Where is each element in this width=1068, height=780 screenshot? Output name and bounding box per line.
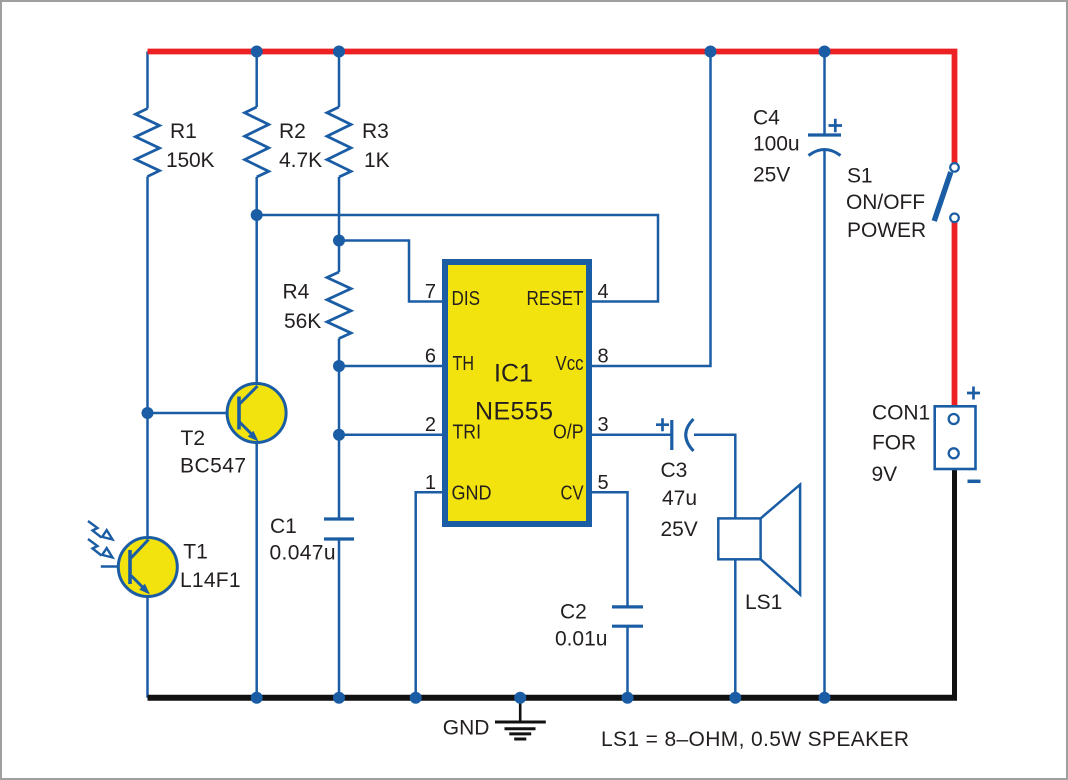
svg-text:C4: C4 [753,107,780,130]
svg-text:POWER: POWER [847,219,926,242]
svg-text:L14F1: L14F1 [180,569,241,592]
svg-text:DIS: DIS [452,288,481,310]
svg-text:4: 4 [598,281,609,303]
svg-text:47u: 47u [662,487,697,510]
svg-text:3: 3 [598,414,609,436]
svg-text:IC1: IC1 [494,360,533,388]
svg-text:CV: CV [561,483,585,505]
svg-text:R2: R2 [279,120,306,143]
svg-text:GND: GND [443,717,490,740]
svg-text:56K: 56K [284,310,321,333]
svg-text:C2: C2 [560,601,587,624]
svg-text:150K: 150K [166,149,215,172]
svg-text:5: 5 [598,472,609,494]
svg-text:C3: C3 [661,459,688,482]
svg-text:R4: R4 [283,281,310,304]
svg-text:4.7K: 4.7K [279,149,322,172]
svg-text:0.047u: 0.047u [270,542,336,565]
svg-text:1: 1 [425,472,436,494]
svg-text:RESET: RESET [527,288,584,310]
svg-text:T2: T2 [181,427,206,450]
svg-text:25V: 25V [753,164,790,187]
svg-text:FOR: FOR [872,432,916,455]
svg-text:2: 2 [425,414,436,436]
svg-text:100u: 100u [753,133,800,156]
svg-text:LS1: LS1 [745,591,782,614]
svg-text:T1: T1 [183,541,208,564]
svg-text:25V: 25V [661,518,698,541]
svg-text:R3: R3 [362,120,389,143]
svg-text:6: 6 [425,346,436,368]
svg-text:CON1: CON1 [872,402,930,425]
svg-text:TRI: TRI [453,422,482,444]
svg-text:R1: R1 [170,120,197,143]
svg-text:S1: S1 [847,164,873,187]
svg-text:NE555: NE555 [475,398,553,426]
svg-text:TH: TH [453,353,475,375]
svg-text:1K: 1K [364,149,390,172]
svg-text:ON/OFF: ON/OFF [846,191,925,214]
svg-text:LS1 = 8–OHM, 0.5W SPEAKER: LS1 = 8–OHM, 0.5W SPEAKER [601,728,909,751]
svg-text:9V: 9V [872,463,898,486]
svg-text:O/P: O/P [553,422,584,444]
svg-text:GND: GND [452,483,492,505]
svg-text:Vcc: Vcc [556,353,584,375]
svg-text:0.01u: 0.01u [555,628,607,651]
svg-text:7: 7 [425,281,436,303]
svg-text:BC547: BC547 [180,454,246,477]
svg-text:C1: C1 [270,515,297,538]
svg-text:8: 8 [598,346,609,368]
